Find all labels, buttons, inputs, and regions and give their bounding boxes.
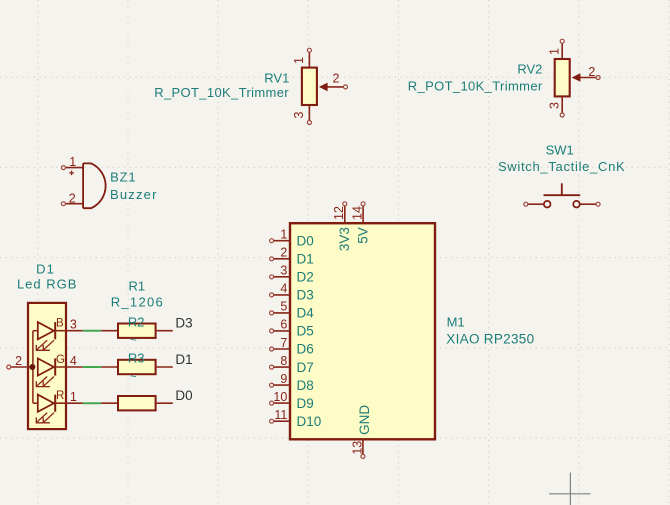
M1 pin 5 (D4) <box>270 300 315 321</box>
svg-text:8: 8 <box>280 354 287 368</box>
svg-text:~: ~ <box>130 335 136 347</box>
svg-text:1: 1 <box>70 390 77 404</box>
svg-text:R3: R3 <box>128 351 145 366</box>
svg-text:R: R <box>56 390 64 402</box>
M1 pin 9 (D8) <box>270 372 314 393</box>
svg-text:R_POT_10K_Trimmer: R_POT_10K_Trimmer <box>408 79 543 94</box>
svg-text:3: 3 <box>292 111 306 118</box>
M1 pin 6 (D5) <box>270 318 314 339</box>
svg-text:2: 2 <box>280 246 287 260</box>
wire net D3 <box>83 330 101 332</box>
svg-text:G: G <box>56 354 65 366</box>
RV2 pin 3 <box>548 96 565 117</box>
M1 pin 4 (D3) <box>270 282 314 303</box>
D1 anode bus <box>32 331 34 404</box>
svg-text:D1: D1 <box>175 352 192 367</box>
svg-text:D5: D5 <box>297 324 314 339</box>
svg-text:D6: D6 <box>297 342 314 357</box>
svg-text:D1: D1 <box>297 252 314 267</box>
M1 pin 7 (D6) <box>270 336 314 357</box>
svg-text:D2: D2 <box>297 270 314 285</box>
svg-text:1: 1 <box>69 155 76 169</box>
potentiometer RV2 body <box>555 59 570 96</box>
svg-text:14: 14 <box>351 206 365 220</box>
RV2 pin 2 wiper <box>572 65 600 82</box>
resistor R1 body <box>101 396 173 410</box>
D1 green LED element (pin 4) <box>36 354 83 387</box>
cursor crosshair <box>549 473 590 505</box>
svg-text:D8: D8 <box>297 378 314 393</box>
svg-text:7: 7 <box>280 336 287 350</box>
RV1 pin 1 <box>292 48 311 67</box>
svg-text:5: 5 <box>280 300 287 314</box>
RV1 pin 3 <box>292 105 311 125</box>
svg-text:~: ~ <box>130 371 136 383</box>
M1 pin 14 (5V) <box>351 202 371 244</box>
svg-text:D3: D3 <box>297 288 314 303</box>
svg-text:6: 6 <box>280 318 287 332</box>
potentiometer RV1 body <box>302 68 317 105</box>
svg-text:13: 13 <box>350 441 364 455</box>
M1 pin 12 (3V3) <box>332 202 352 251</box>
svg-text:SW1: SW1 <box>546 143 574 158</box>
RV1 pin 2 wiper <box>319 72 348 92</box>
buzzer BZ1 body <box>83 163 106 208</box>
svg-text:M1: M1 <box>447 315 465 330</box>
svg-text:1: 1 <box>548 48 562 55</box>
SW1 pin 1 <box>524 202 544 206</box>
SW1 pin 2 <box>580 202 600 206</box>
BZ1 pin 2 <box>61 191 83 205</box>
svg-text:3: 3 <box>70 318 77 332</box>
svg-text:2: 2 <box>69 191 76 205</box>
svg-text:4: 4 <box>280 282 287 296</box>
svg-text:D3: D3 <box>175 316 192 331</box>
SW1 actuator stem <box>561 183 563 195</box>
svg-text:Led RGB: Led RGB <box>17 276 77 291</box>
svg-text:D0: D0 <box>297 233 314 248</box>
svg-text:10: 10 <box>273 390 287 404</box>
wire net D0 <box>83 402 101 404</box>
svg-text:3: 3 <box>548 102 562 109</box>
D1 red LED element (pin 1) <box>33 390 83 423</box>
svg-text:XIAO RP2350: XIAO RP2350 <box>446 332 534 347</box>
svg-text:1: 1 <box>280 228 287 242</box>
svg-text:R_POT_10K_Trimmer: R_POT_10K_Trimmer <box>154 85 289 100</box>
resistor R3 <box>101 360 173 374</box>
SW1 actuator bar <box>544 194 581 196</box>
svg-text:12: 12 <box>332 206 346 220</box>
resistor R2 <box>101 324 173 338</box>
svg-text:R_1206: R_1206 <box>111 294 164 309</box>
M1 pin 1 (D0) <box>270 228 314 249</box>
svg-text:1: 1 <box>292 57 306 64</box>
svg-text:D7: D7 <box>297 360 314 375</box>
M1 pin 10 (D9) <box>270 390 314 411</box>
svg-text:B: B <box>56 318 64 330</box>
M1 pin 2 (D1) <box>270 246 314 267</box>
svg-text:D10: D10 <box>297 414 322 429</box>
wire net D1 <box>83 366 101 368</box>
svg-text:2: 2 <box>333 72 340 86</box>
M1 pin 13 (GND) <box>350 405 372 459</box>
SW1 contact B <box>573 201 580 208</box>
svg-text:RV1: RV1 <box>264 70 289 85</box>
svg-text:4: 4 <box>70 354 77 368</box>
LED D1 body <box>28 303 66 429</box>
D1 blue LED element (pin 3) <box>33 318 83 351</box>
RV2 pin 1 <box>548 39 565 59</box>
svg-text:RV2: RV2 <box>517 61 542 76</box>
SW1 contact A <box>544 201 551 208</box>
svg-text:2: 2 <box>15 354 22 368</box>
IC M1 body <box>290 223 435 439</box>
svg-text:Buzzer: Buzzer <box>110 187 158 202</box>
M1 pin 8 (D7) <box>270 354 314 375</box>
svg-text:R1: R1 <box>128 278 145 293</box>
M1 pin 11 (D10) <box>270 408 322 429</box>
svg-text:GND: GND <box>357 405 372 435</box>
svg-text:D4: D4 <box>297 306 315 321</box>
D1 junction dot <box>29 364 35 370</box>
svg-text:D9: D9 <box>297 396 314 411</box>
svg-text:3: 3 <box>280 264 287 278</box>
BZ1 pin 1 <box>61 155 83 170</box>
BZ1 plus polarity mark <box>69 171 74 176</box>
M1 pin 3 (D2) <box>270 264 314 285</box>
svg-text:BZ1: BZ1 <box>110 169 136 184</box>
D1 pin 2 <box>7 354 33 369</box>
svg-text:D1: D1 <box>36 262 55 277</box>
svg-text:3V3: 3V3 <box>337 227 352 251</box>
svg-text:11: 11 <box>274 408 287 422</box>
svg-text:9: 9 <box>280 372 287 386</box>
svg-text:2: 2 <box>588 65 595 79</box>
svg-text:Switch_Tactile_CnK: Switch_Tactile_CnK <box>498 159 626 174</box>
svg-text:D0: D0 <box>175 388 192 403</box>
svg-text:5V: 5V <box>355 227 370 244</box>
svg-text:R2: R2 <box>128 314 145 329</box>
